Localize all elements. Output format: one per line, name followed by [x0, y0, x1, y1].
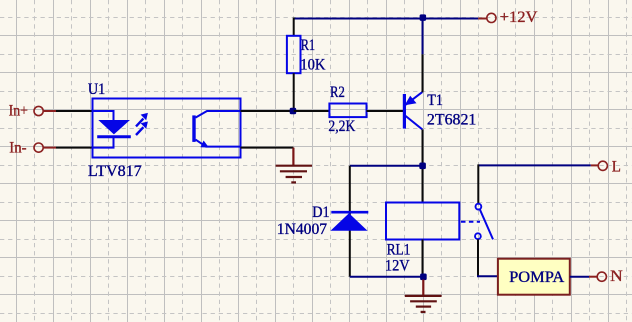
ground relay	[405, 296, 442, 312]
wire R1 top	[293, 18, 295, 36]
wire U1 collector to node	[241, 110, 294, 112]
relay RL1 coil box	[386, 203, 459, 240]
wire emitter upper navy	[422, 19, 424, 55]
wire emitter lower black	[422, 54, 424, 92]
svg-text:1N4007: 1N4007	[277, 221, 327, 238]
wire bottom branch	[350, 276, 423, 278]
wire L horizontal	[478, 164, 591, 166]
wire ground stub relay	[422, 280, 424, 296]
wire collector down	[422, 129, 424, 202]
svg-text:2T6821: 2T6821	[427, 112, 477, 129]
transistor T1	[404, 92, 422, 129]
svg-text:R2: R2	[330, 84, 345, 101]
terminal In+	[34, 106, 43, 115]
optocoupler U1 box	[93, 99, 241, 158]
wire switch bottom vertical	[477, 239, 479, 276]
switch blade	[480, 210, 493, 240]
terminal N	[597, 272, 606, 281]
node collector junction	[419, 163, 426, 170]
svg-text:10K: 10K	[300, 57, 326, 74]
wire stub to +12V terminal	[478, 18, 486, 20]
switch contact bottom	[475, 233, 481, 239]
svg-text:RL1: RL1	[387, 242, 411, 259]
resistor R1	[287, 36, 301, 73]
wire N stub	[589, 276, 597, 278]
light arrow 2	[136, 122, 148, 136]
wire to POMPA	[477, 275, 498, 277]
POMPA box	[498, 259, 570, 295]
wire R2 to base	[367, 110, 404, 112]
switch actuator dashed link	[461, 221, 480, 223]
svg-text:POMPA: POMPA	[509, 269, 565, 286]
wire L vertical to switch	[477, 164, 479, 203]
wire U1 emitter to ground	[241, 147, 294, 149]
wire LED cathode bar	[97, 135, 131, 138]
wire In+	[56, 110, 93, 112]
ground U1	[276, 166, 312, 183]
wire L stub	[591, 164, 598, 166]
terminal L	[598, 161, 607, 170]
light arrow 1	[136, 113, 148, 127]
wire In- stub	[43, 147, 56, 149]
wire LED cathode lead	[93, 137, 114, 148]
terminal +12V	[487, 13, 496, 22]
switch contact top	[476, 204, 482, 210]
wire In+ stub	[43, 110, 56, 112]
svg-text:N: N	[610, 268, 623, 285]
diode LED of U1	[98, 120, 130, 134]
wire ground stub U1	[292, 148, 294, 166]
wire N navy	[570, 276, 589, 278]
phototransistor of U1	[194, 111, 241, 148]
svg-text:T1: T1	[427, 92, 443, 109]
terminal In-	[34, 143, 43, 152]
resistor R2	[329, 104, 366, 118]
wire node to R2	[294, 110, 330, 112]
svg-text:+12V: +12V	[500, 9, 538, 26]
diode D1	[331, 212, 369, 231]
svg-text:LTV817: LTV817	[88, 163, 142, 180]
svg-text:2,2K: 2,2K	[328, 118, 355, 135]
svg-text:In+: In+	[9, 102, 28, 119]
wire In-	[56, 147, 93, 149]
node top rail junction	[420, 14, 427, 21]
svg-text:D1: D1	[312, 204, 329, 221]
wire LED anode lead	[93, 111, 114, 120]
svg-text:R1: R1	[301, 37, 315, 54]
node base junction	[290, 108, 297, 115]
wire D1 branch top	[350, 165, 423, 167]
wire R1 bottom	[293, 73, 295, 111]
svg-text:In-: In-	[9, 140, 26, 157]
wire relay coil bottom	[422, 240, 424, 277]
svg-text:U1: U1	[88, 81, 105, 98]
wire top rail +12V	[294, 18, 479, 20]
node relay bottom junction	[420, 274, 427, 281]
wire D1 branch vertical	[349, 166, 351, 277]
svg-text:12V: 12V	[385, 257, 410, 274]
svg-text:L: L	[612, 158, 621, 175]
